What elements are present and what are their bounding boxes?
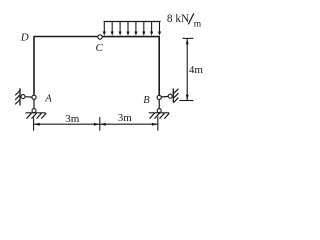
svg-text:A: A (44, 93, 52, 104)
svg-text:4m: 4m (189, 64, 204, 76)
svg-text:3m: 3m (65, 113, 80, 125)
svg-text:3m: 3m (118, 112, 133, 124)
svg-text:m: m (194, 19, 202, 29)
svg-text:B: B (143, 95, 150, 106)
svg-text:8 kN: 8 kN (167, 13, 189, 25)
svg-text:C: C (96, 42, 104, 54)
svg-text:D: D (20, 32, 29, 44)
